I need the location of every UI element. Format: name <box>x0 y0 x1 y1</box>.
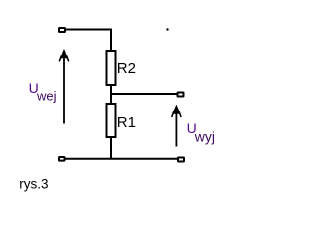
terminal J1 (top-left input) <box>59 28 65 32</box>
svg-text:rys.3: rys.3 <box>19 176 48 191</box>
wire between R2 and R1 <box>110 85 112 104</box>
svg-text:R1: R1 <box>117 114 136 131</box>
voltage arrow Uwej <box>59 49 68 124</box>
terminal J3 (bottom-left) <box>59 157 65 161</box>
terminal J4 (bottom-right) <box>178 158 184 162</box>
resistor R1 <box>107 104 116 137</box>
wire junction node to output terminal <box>111 93 177 95</box>
svg-text:R2: R2 <box>117 60 136 77</box>
resistor R2 <box>107 51 116 85</box>
bottom wire rail <box>65 158 177 160</box>
wire from R1 to bottom rail <box>110 137 112 159</box>
terminal J2 (top-right output) <box>178 93 184 97</box>
stray dot node <box>166 28 168 30</box>
wire from J1 to top of R2 <box>65 30 111 51</box>
voltage arrow Uwyj <box>172 105 181 147</box>
